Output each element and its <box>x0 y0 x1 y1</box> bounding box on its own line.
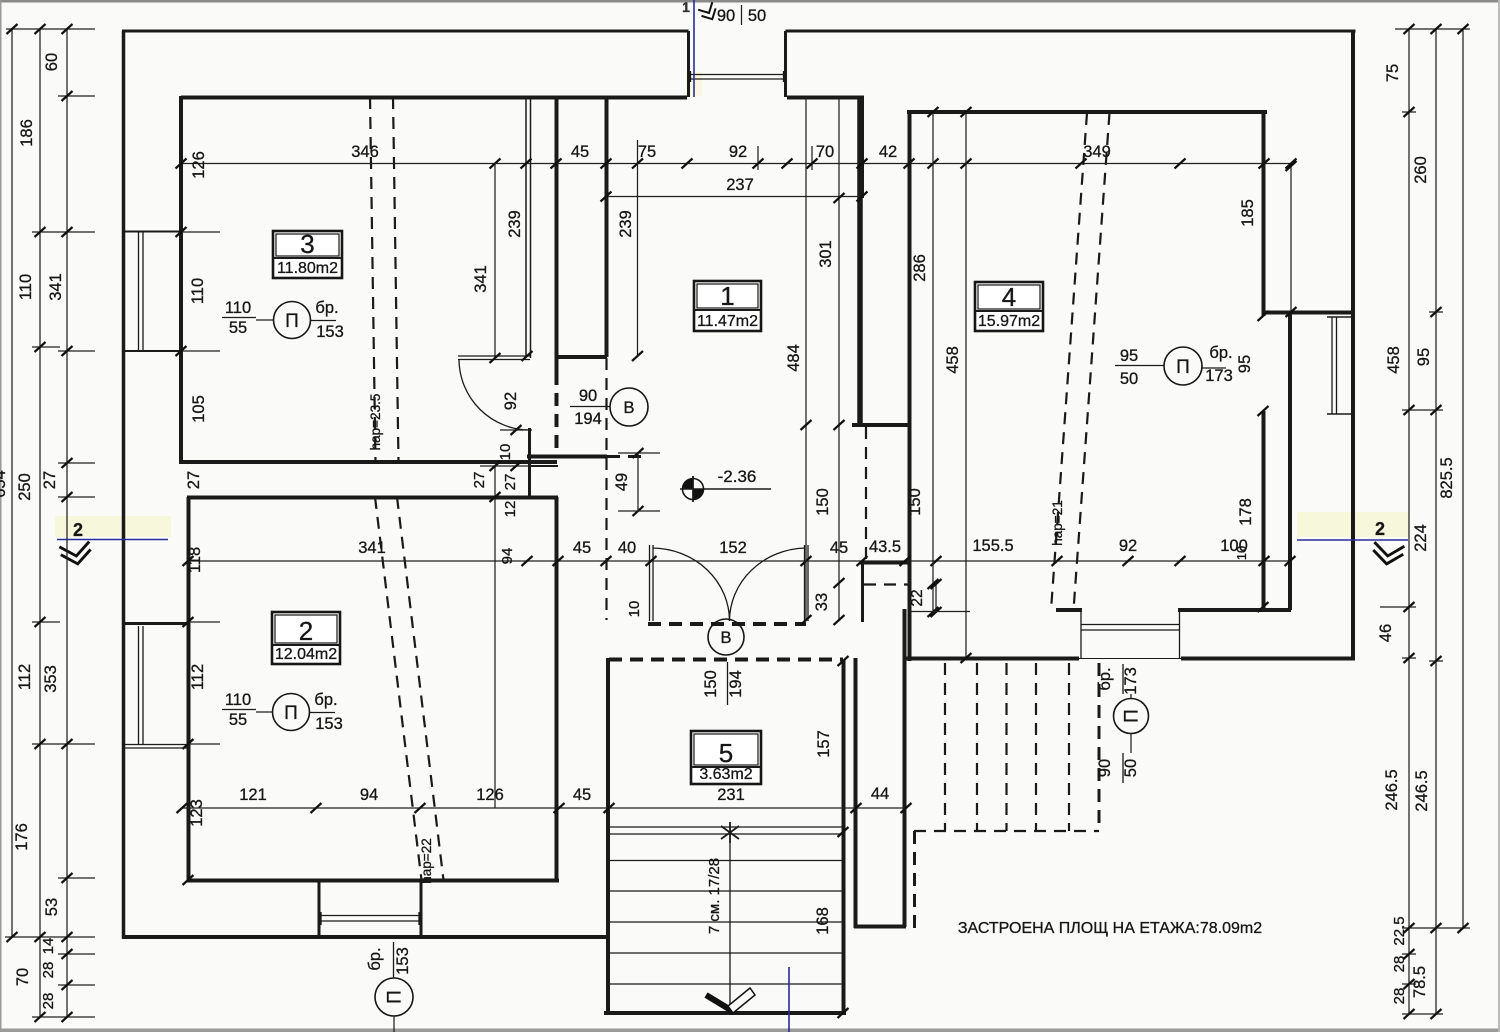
svg-text:44: 44 <box>871 785 889 803</box>
svg-text:153: 153 <box>315 715 343 733</box>
svg-text:46: 46 <box>1377 624 1395 642</box>
svg-text:94: 94 <box>360 786 378 804</box>
elevation marker -2.36 <box>683 479 704 500</box>
stair steps <box>610 826 842 828</box>
svg-text:92: 92 <box>1119 537 1137 555</box>
svg-text:150: 150 <box>814 488 832 516</box>
window east glazing <box>1331 317 1333 414</box>
svg-text:28: 28 <box>40 993 57 1010</box>
dim small door jog cluster <box>500 429 532 431</box>
svg-text:бр.: бр. <box>366 947 384 970</box>
wall room1 left <box>605 96 609 357</box>
svg-text:50: 50 <box>748 7 766 25</box>
svg-text:-2.36: -2.36 <box>718 467 757 486</box>
svg-text:341: 341 <box>472 265 490 293</box>
wall bay right <box>420 879 423 937</box>
svg-text:45: 45 <box>573 539 591 557</box>
svg-text:55: 55 <box>229 319 247 337</box>
section line 1 bottom blue <box>788 967 790 1032</box>
wall room4 top <box>907 110 1267 114</box>
dim 157 168 stairs <box>838 656 849 666</box>
marker P stairwell rotated <box>1114 699 1149 734</box>
dashed edge right of room1 <box>865 427 867 560</box>
svg-text:94: 94 <box>499 548 516 565</box>
dim line B middle <box>188 560 1290 562</box>
svg-text:53: 53 <box>43 898 61 916</box>
dim line 484 hall <box>805 97 807 620</box>
svg-text:В: В <box>623 399 634 417</box>
dim tick lines right <box>1395 28 1470 30</box>
svg-text:286: 286 <box>911 254 929 282</box>
wall room2 right <box>555 497 559 881</box>
wall stairs bottom <box>604 1011 846 1015</box>
window east caps <box>1327 316 1352 318</box>
svg-text:153: 153 <box>316 323 344 341</box>
svg-text:28: 28 <box>40 962 57 979</box>
wall room5 top dashed (flight above) <box>609 658 843 662</box>
svg-text:185: 185 <box>1239 199 1257 227</box>
svg-text:194: 194 <box>574 410 602 428</box>
svg-text:3: 3 <box>300 229 314 259</box>
svg-text:hap=23.5: hap=23.5 <box>368 394 383 451</box>
highlight right section line <box>1297 512 1409 537</box>
svg-text:1: 1 <box>682 0 690 15</box>
svg-text:260: 260 <box>1412 156 1430 184</box>
door jamb right room4 south <box>1179 611 1181 658</box>
svg-text:10: 10 <box>1234 546 1249 560</box>
dim 49 hall <box>637 453 639 511</box>
dim tick lines left <box>6 28 95 30</box>
svg-text:231: 231 <box>717 786 745 804</box>
svg-text:95: 95 <box>1120 347 1138 365</box>
wall south outer bottom-left <box>122 935 606 939</box>
section line 2 right blue <box>1297 539 1408 541</box>
svg-text:50: 50 <box>1120 370 1138 388</box>
wall passage top (room1 to room4) <box>852 423 911 427</box>
svg-text:186: 186 <box>18 119 36 147</box>
svg-text:110: 110 <box>225 299 251 317</box>
dim line 286-150 room4 <box>932 112 934 612</box>
svg-text:173: 173 <box>1205 367 1233 385</box>
svg-text:45: 45 <box>573 786 591 804</box>
wall horizontal east step <box>1262 311 1355 315</box>
door room3-hall swing arc <box>459 360 530 430</box>
svg-text:90: 90 <box>1096 759 1114 777</box>
dim line 237 <box>606 196 862 198</box>
svg-text:349: 349 <box>1083 143 1111 161</box>
section marker 1 top chevron <box>698 2 719 23</box>
svg-text:150: 150 <box>702 670 720 698</box>
dashed roof edge room2 a <box>375 497 422 880</box>
svg-text:92: 92 <box>502 392 520 410</box>
svg-text:75: 75 <box>638 143 656 161</box>
svg-text:112: 112 <box>189 664 207 690</box>
svg-text:5: 5 <box>719 738 733 768</box>
dashed basement stair left bold <box>913 831 916 928</box>
svg-text:бр.: бр. <box>315 299 338 317</box>
dim 22 near room4 sw <box>935 584 937 612</box>
window west lower cap double <box>122 744 188 746</box>
svg-text:118: 118 <box>186 547 204 573</box>
wall stub left of room1 door <box>558 355 607 359</box>
svg-text:П: П <box>285 311 299 332</box>
dim ticks line A <box>176 159 187 169</box>
dashed basement stair edge bold <box>1098 663 1101 831</box>
svg-text:250: 250 <box>16 473 34 501</box>
dim chain left L2 <box>39 29 41 1017</box>
svg-text:110: 110 <box>17 274 35 300</box>
wall upper between room1 and room4 <box>861 96 864 198</box>
svg-text:27: 27 <box>41 471 59 489</box>
svg-text:12.04m2: 12.04m2 <box>275 646 337 663</box>
wall hall left dashed part <box>555 372 559 452</box>
window west upper glazing <box>138 232 140 351</box>
svg-text:155.5: 155.5 <box>972 537 1013 555</box>
svg-text:176: 176 <box>13 823 31 851</box>
window sill room4 south <box>1081 624 1179 626</box>
wall stairs right <box>842 660 846 1014</box>
dim chain right R3 <box>1462 29 1464 928</box>
door double left swing arc <box>653 548 730 621</box>
wall north outer left <box>122 30 689 33</box>
svg-text:110: 110 <box>225 691 251 709</box>
wall room3 right partition line a <box>525 96 527 358</box>
svg-text:112: 112 <box>16 664 34 690</box>
svg-text:60: 60 <box>43 53 61 71</box>
svg-text:12: 12 <box>502 501 519 518</box>
wall stairwell doorway side <box>903 609 907 927</box>
window west upper niche top <box>122 231 181 233</box>
svg-text:239: 239 <box>506 210 524 238</box>
marker P below bay rotated <box>375 978 413 1016</box>
dim ticks room3 left wall <box>181 231 220 233</box>
dashed hall wall with double door <box>648 622 806 626</box>
wall south right wing right part <box>1181 657 1355 661</box>
dashed edge below room1 <box>864 583 908 585</box>
dim chain right R1 <box>1408 29 1410 1014</box>
wall niche left side <box>861 563 864 622</box>
stairs start marker <box>729 822 731 843</box>
svg-text:2: 2 <box>73 520 83 540</box>
svg-text:28: 28 <box>1391 956 1408 973</box>
dashed hall opening small <box>607 455 648 458</box>
wall room4 left <box>908 112 912 661</box>
svg-text:178: 178 <box>1237 498 1255 526</box>
svg-text:15.97m2: 15.97m2 <box>978 313 1040 330</box>
svg-text:173: 173 <box>1122 667 1140 695</box>
wall room2 bottom <box>187 879 559 883</box>
wall niche top above window w2 <box>122 622 188 625</box>
dim line A extension stubs <box>637 140 639 163</box>
svg-text:121: 121 <box>239 786 267 804</box>
dim ticks room2 left wall <box>188 621 220 623</box>
svg-text:П: П <box>1122 709 1143 723</box>
svg-text:1: 1 <box>720 281 734 311</box>
svg-text:49: 49 <box>613 473 631 491</box>
wall jog below door room3 <box>528 428 531 498</box>
dim chain left L1 <box>11 29 13 937</box>
svg-text:95: 95 <box>1236 355 1254 373</box>
section marker 2 left chevron <box>61 543 92 567</box>
dim line 301-150-33 <box>838 97 840 620</box>
svg-text:95: 95 <box>1415 348 1433 366</box>
dim ticks right chains <box>1404 24 1415 34</box>
stairs arrow head <box>706 995 734 1012</box>
svg-text:2: 2 <box>1375 519 1385 539</box>
dim ticks left chains <box>7 24 18 34</box>
wall east inner band <box>1288 312 1292 610</box>
svg-text:33: 33 <box>813 593 831 611</box>
svg-text:92: 92 <box>729 143 747 161</box>
dim ticks closet opening 95 <box>1258 311 1269 321</box>
dim chain right R2 <box>1435 29 1437 1014</box>
svg-text:бр.: бр. <box>1209 344 1232 362</box>
wall bay left <box>318 881 321 937</box>
dim chain left L3 <box>66 29 68 1017</box>
dim line 239 room1 left <box>637 163 639 356</box>
svg-text:43.5: 43.5 <box>869 538 901 556</box>
dim ticks line C <box>177 803 188 813</box>
room box 3 <box>273 231 342 278</box>
dashed hall opening west <box>605 358 607 620</box>
wall room2 top <box>187 496 558 500</box>
svg-text:42: 42 <box>879 143 897 161</box>
svg-text:105: 105 <box>190 395 208 423</box>
wall room3 right partition line b <box>530 96 532 358</box>
dashed roof edge room3 b <box>393 97 399 462</box>
dim 178 east wall <box>1258 602 1269 612</box>
svg-text:825.5: 825.5 <box>1438 457 1456 498</box>
wall north inner (rooms 3 and 1) <box>181 96 687 100</box>
svg-text:484: 484 <box>785 344 803 372</box>
dim line A top <box>181 163 1291 165</box>
svg-text:27: 27 <box>471 472 488 489</box>
svg-text:346: 346 <box>351 143 379 161</box>
svg-text:654: 654 <box>0 470 9 498</box>
dashed roof edge room4 b <box>1074 113 1110 610</box>
svg-text:11.80m2: 11.80m2 <box>277 260 338 277</box>
dashed roof edge room3 a <box>370 97 376 462</box>
highlight top section line <box>686 72 702 96</box>
svg-text:В: В <box>720 629 731 647</box>
svg-text:3.63m2: 3.63m2 <box>699 766 752 783</box>
dim line 341 room3 <box>494 163 496 358</box>
svg-text:168: 168 <box>814 907 832 935</box>
dim line 458 room4 <box>965 112 967 658</box>
dim ticks line B <box>183 556 194 566</box>
window bay glazing <box>320 915 421 917</box>
svg-text:301: 301 <box>817 240 835 268</box>
svg-text:237: 237 <box>726 176 754 194</box>
wall room1 right <box>857 96 863 424</box>
svg-text:246.5: 246.5 <box>1413 770 1431 811</box>
wall south right wing left part <box>904 657 1079 661</box>
svg-text:126: 126 <box>190 151 208 179</box>
wall niche top right of hall <box>860 562 910 565</box>
svg-text:458: 458 <box>944 346 962 374</box>
marker B hall south <box>708 619 744 655</box>
dashed basement stair treads <box>944 663 946 831</box>
svg-text:153: 153 <box>394 947 412 975</box>
svg-text:110: 110 <box>189 278 207 304</box>
svg-text:П: П <box>385 990 406 1004</box>
dim line extension room2 right <box>494 466 496 808</box>
marker P room2 <box>273 694 310 731</box>
wall room4 bottom left part <box>1056 608 1082 612</box>
svg-text:11.47m2: 11.47m2 <box>697 313 758 330</box>
room box 5 <box>691 731 761 784</box>
marker P room4 <box>1164 347 1202 385</box>
svg-text:2: 2 <box>299 616 313 646</box>
dashed roof edge room2 b <box>397 497 444 880</box>
wall south right wing thin across opening <box>1079 658 1181 660</box>
wall stairwell west face <box>854 658 858 928</box>
svg-text:150: 150 <box>906 488 924 516</box>
door double right panel <box>804 545 806 621</box>
wall stairwell bottom jog <box>854 925 906 929</box>
section line 2 left blue <box>57 539 168 541</box>
wall hall sw corner horizontal <box>527 455 607 459</box>
svg-text:78.5: 78.5 <box>1411 966 1429 998</box>
dim line 185 closet <box>1290 166 1292 312</box>
svg-text:224: 224 <box>1412 524 1430 552</box>
svg-text:П: П <box>284 703 298 724</box>
svg-text:341: 341 <box>47 273 65 301</box>
room box 2 <box>272 612 340 664</box>
wall north outer right <box>786 30 1356 33</box>
svg-text:10: 10 <box>497 444 514 461</box>
room box 1 <box>694 281 761 331</box>
marker B hall west <box>610 388 648 426</box>
svg-text:341: 341 <box>358 539 386 557</box>
dashed basement stair bottom <box>914 830 1099 832</box>
door double right swing arc <box>730 548 806 621</box>
wall vestibule right <box>784 31 787 97</box>
wall west outer <box>122 31 126 939</box>
window sill vestibule entry <box>690 74 784 76</box>
svg-text:10: 10 <box>626 601 643 618</box>
highlight left section line <box>55 516 171 537</box>
svg-text:14: 14 <box>40 938 57 955</box>
dim line C lower <box>182 807 906 809</box>
svg-text:239: 239 <box>617 210 635 238</box>
svg-text:ЗАСТРОЕНА ПЛОЩ НА ЕТАЖА:78.: ЗАСТРОЕНА ПЛОЩ НА ЕТАЖА:78.09m2 <box>958 920 1262 937</box>
wall notch below corner <box>528 465 558 467</box>
wall north inner (right of vestibule) <box>787 96 864 100</box>
svg-text:55: 55 <box>229 711 247 729</box>
wall room2 left (inner face) <box>187 497 191 881</box>
room box 4 <box>975 282 1043 331</box>
wall room3 left (inner face) <box>179 96 183 464</box>
svg-text:246.5: 246.5 <box>1383 769 1401 810</box>
svg-text:4: 4 <box>1002 282 1016 312</box>
wall closet east lower part <box>1262 411 1266 610</box>
svg-text:458: 458 <box>1385 346 1403 374</box>
svg-text:90: 90 <box>717 7 735 25</box>
svg-text:50: 50 <box>1122 759 1140 777</box>
marker P room3 <box>274 302 311 339</box>
wall vestibule left <box>687 31 690 97</box>
svg-text:П: П <box>1176 357 1190 378</box>
svg-text:157: 157 <box>815 730 833 758</box>
svg-text:бр.: бр. <box>314 691 337 709</box>
svg-text:бр.: бр. <box>1096 667 1114 690</box>
svg-text:22.5: 22.5 <box>1391 916 1408 945</box>
svg-text:27: 27 <box>502 474 519 491</box>
svg-text:353: 353 <box>42 665 60 693</box>
svg-text:7 cм. 17/28: 7 cм. 17/28 <box>706 858 723 934</box>
section marker 2 right chevron <box>1373 543 1403 566</box>
wall hall left upper <box>555 96 559 372</box>
svg-text:126: 126 <box>476 786 504 804</box>
svg-text:123: 123 <box>188 799 206 827</box>
svg-text:194: 194 <box>727 670 745 698</box>
wall room3 bottom <box>179 460 557 464</box>
svg-text:152: 152 <box>719 539 747 557</box>
svg-text:45: 45 <box>571 143 589 161</box>
svg-text:hap=21: hap=21 <box>1050 500 1065 545</box>
wall closet east of room4 <box>1262 112 1266 316</box>
wall room4 bottom right part <box>1178 608 1291 612</box>
wall stairs left <box>606 658 610 1014</box>
stairs direction line <box>729 843 731 1005</box>
svg-text:75: 75 <box>1384 64 1402 82</box>
section line 1 top blue <box>693 0 695 97</box>
window west upper cap <box>122 350 181 352</box>
svg-text:hap=22: hap=22 <box>419 838 434 883</box>
svg-text:27: 27 <box>185 471 203 489</box>
svg-text:90: 90 <box>579 387 597 405</box>
dashed roof edge room4 a <box>1051 113 1087 610</box>
svg-text:70: 70 <box>14 968 32 986</box>
door jamb left room4 south <box>1080 610 1082 658</box>
svg-text:40: 40 <box>618 539 636 557</box>
door double left panel <box>649 545 651 621</box>
svg-text:22: 22 <box>909 589 926 606</box>
window west lower glazing <box>138 626 140 744</box>
svg-text:28: 28 <box>1391 988 1408 1005</box>
svg-text:70: 70 <box>816 143 834 161</box>
door room3-hall leaf double line <box>458 355 530 357</box>
wall east outer <box>1351 31 1355 660</box>
